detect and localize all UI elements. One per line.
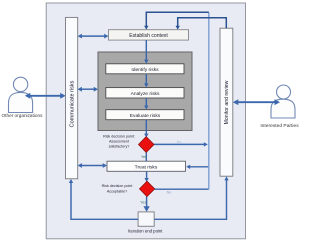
svg-text:Establish context: Establish context xyxy=(129,33,168,39)
svg-text:Analyze risks: Analyze risks xyxy=(131,91,160,97)
svg-text:Identify risks: Identify risks xyxy=(131,67,159,73)
iteration endpoint box xyxy=(128,212,163,234)
arrow pair other organizations xyxy=(25,93,31,99)
svg-text:Risk decision point:: Risk decision point: xyxy=(103,134,135,138)
arrow onto establish context from monitor loop xyxy=(176,26,180,30)
wire: monitor bar top loop to establish context xyxy=(178,18,227,28)
treat risks box xyxy=(107,161,186,171)
identify risks box xyxy=(106,64,184,74)
wire: analyze to evaluate xyxy=(145,98,147,107)
svg-text:Acceptable?: Acceptable? xyxy=(107,189,127,193)
decision diamond 2 xyxy=(140,181,155,196)
svg-text:Risk decision point: Risk decision point xyxy=(102,184,133,188)
svg-text:Yes: Yes xyxy=(141,155,147,159)
arrow onto establish context from right vertical xyxy=(144,26,148,30)
risk assessment gray box xyxy=(98,52,192,131)
wire: decision 1 yes to treat risks xyxy=(145,152,147,161)
wire: evaluate to decision 1 xyxy=(145,120,147,134)
wire: decision 2 yes to endpoint xyxy=(146,197,148,207)
arrow into evaluate risks xyxy=(144,106,148,110)
wire: decision 2 no horizontal xyxy=(155,188,209,190)
wire: establish context to identify risks xyxy=(71,36,227,219)
arrow into treat risks right edge xyxy=(186,165,190,169)
arrow into decision 2 xyxy=(144,178,148,182)
svg-text:Evaluate risks: Evaluate risks xyxy=(130,113,161,119)
communicate risks bar xyxy=(66,17,78,178)
arrow into endpoint box xyxy=(143,206,149,211)
wire: communicate bar to establish context xyxy=(81,35,106,37)
arrow into identify risks xyxy=(144,60,148,64)
svg-text:Communicate risks: Communicate risks xyxy=(69,80,75,127)
wire: right return vertical (light) xyxy=(208,12,210,189)
wire: branch into treat risks xyxy=(190,166,209,168)
evaluate risks box xyxy=(106,110,184,120)
svg-text:No: No xyxy=(167,191,172,195)
arrow pair communicate bar / assessment xyxy=(78,87,82,92)
decision diamond 1 xyxy=(139,137,155,153)
arrow up into communicate bar bottom xyxy=(69,179,73,183)
wire: identify to analyze xyxy=(145,74,147,85)
decision 1 label xyxy=(103,134,135,148)
wire: endpoint left to communicate bar bottom xyxy=(71,183,138,220)
svg-text:Interested Parties: Interested Parties xyxy=(260,123,299,129)
svg-text:Monitor and review: Monitor and review xyxy=(224,80,230,124)
arrow pair communicate bar / treat risks xyxy=(78,163,82,168)
wire: endpoint right to monitor bar bottom xyxy=(154,180,226,219)
person interested parties xyxy=(271,85,295,118)
arrow into decision 1 xyxy=(144,134,148,138)
arrow up into monitor bar bottom xyxy=(224,176,228,180)
svg-text:No: No xyxy=(177,140,182,144)
wire: top loop from right vertical to establish context xyxy=(146,12,209,26)
wire: communicate bar to treat risks xyxy=(81,165,104,167)
svg-text:Iteration end point: Iteration end point xyxy=(128,229,163,234)
svg-text:Treat risks: Treat risks xyxy=(135,164,158,170)
arrow pair communicate bar / establish context xyxy=(78,34,82,39)
svg-text:satisfactory?: satisfactory? xyxy=(109,144,130,148)
monitor and review bar xyxy=(220,28,233,176)
arrow decision1 no into vertical xyxy=(204,142,208,146)
person other organizations xyxy=(9,77,33,112)
svg-text:Other organizations: Other organizations xyxy=(2,113,44,118)
wire: other organizations to communicate bar xyxy=(29,95,62,97)
wire: monitor bar to interested parties xyxy=(237,101,276,103)
svg-text:Yes: Yes xyxy=(140,201,146,205)
svg-text:Assessment: Assessment xyxy=(109,139,129,143)
arrowheads xyxy=(25,34,280,212)
wire: decision 1 no to right vertical xyxy=(154,143,204,145)
arrow into analyze risks xyxy=(144,83,148,87)
analyze risks box xyxy=(106,88,184,98)
wire: communicate bar to assessment box xyxy=(81,88,95,90)
outer panel xyxy=(46,3,245,239)
decision 2 label xyxy=(102,184,133,193)
arrow pair interested parties xyxy=(233,99,239,105)
wire: treat risks to decision 2 xyxy=(146,171,148,178)
establish context box xyxy=(109,30,189,40)
